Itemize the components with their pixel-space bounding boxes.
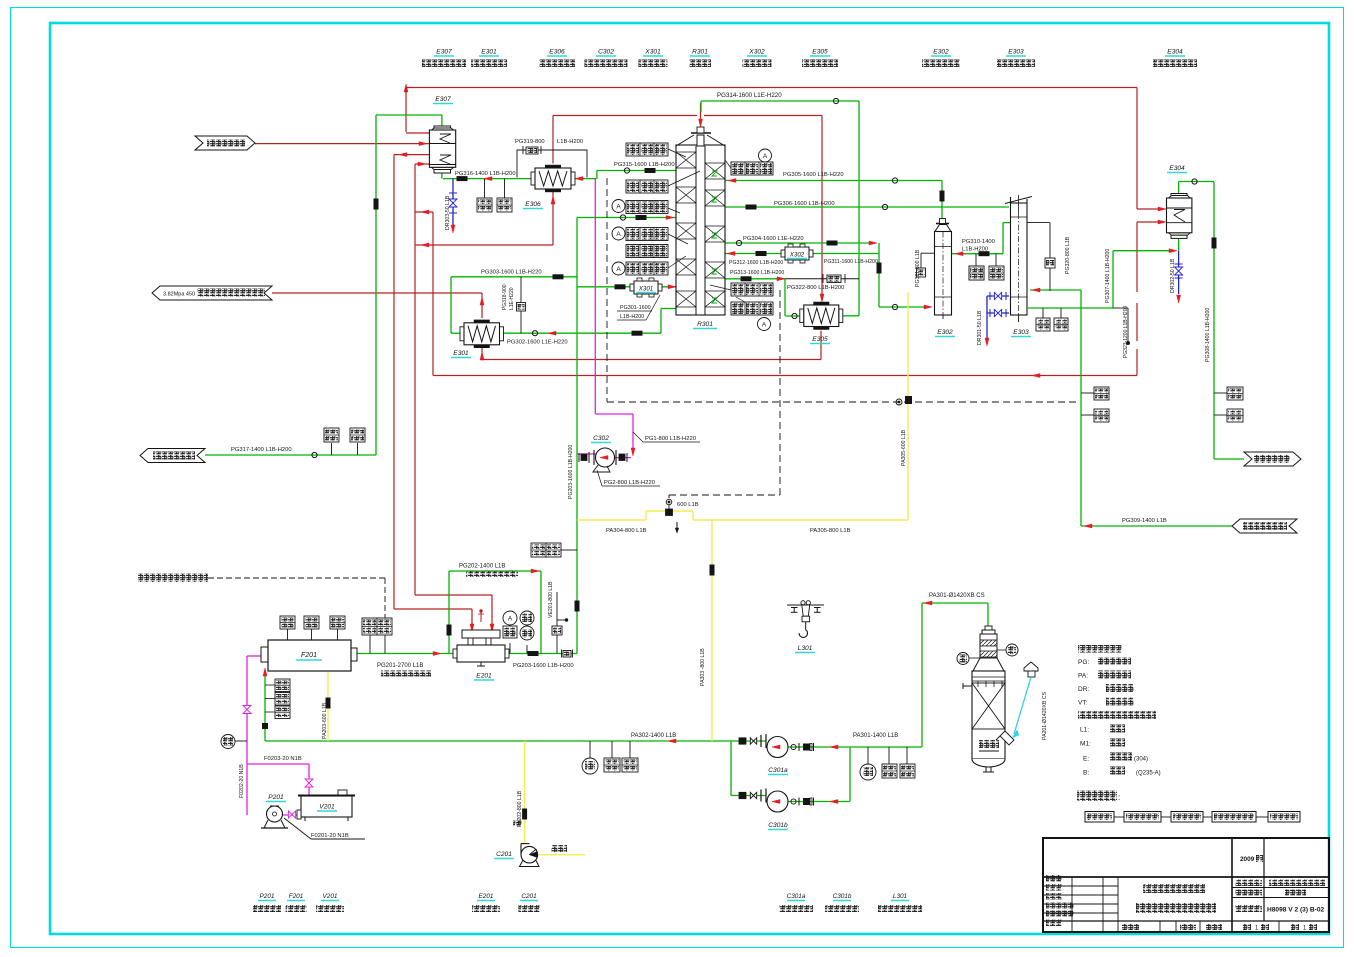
svg-text:PG322-800 L1B-H200: PG322-800 L1B-H200 (787, 285, 844, 291)
svg-text:L1E-H220: L1E-H220 (509, 287, 515, 310)
svg-text:(304): (304) (1134, 757, 1148, 763)
svg-text:E304: E304 (1167, 49, 1183, 56)
svg-text:E201: E201 (476, 673, 492, 680)
svg-text:C302: C302 (598, 49, 614, 56)
svg-text:PG321-800 L1B: PG321-800 L1B (915, 249, 921, 287)
svg-text:B:: B: (1083, 770, 1089, 777)
svg-text:E305: E305 (812, 49, 828, 56)
svg-text:X301: X301 (638, 286, 653, 293)
svg-text:PG314-1600 L1E-H220: PG314-1600 L1E-H220 (717, 92, 782, 99)
svg-text:A: A (616, 266, 621, 273)
svg-text:PG318-900: PG318-900 (502, 284, 508, 310)
svg-text:PG306-1600 L1B-H200: PG306-1600 L1B-H200 (774, 201, 835, 207)
svg-text:A: A (616, 204, 621, 211)
svg-text:PA:: PA: (1078, 673, 1088, 680)
svg-text:PG305-1600 L1B-H220: PG305-1600 L1B-H220 (783, 172, 844, 178)
svg-text:H8098 V 2 (3) B-02: H8098 V 2 (3) B-02 (1267, 907, 1325, 914)
svg-text:F201: F201 (289, 893, 304, 900)
svg-text:VE201-800 L1B: VE201-800 L1B (548, 581, 554, 618)
svg-text:C301a: C301a (768, 767, 788, 774)
svg-text:PG2-800 L1B-H220: PG2-800 L1B-H220 (604, 480, 655, 486)
svg-text:C301b: C301b (768, 822, 788, 829)
svg-text:E301: E301 (453, 350, 469, 357)
svg-text:E201: E201 (479, 893, 494, 900)
svg-text:X302: X302 (748, 49, 765, 56)
svg-text:R301: R301 (697, 321, 713, 328)
svg-text:E306: E306 (549, 49, 565, 56)
svg-text:M1:: M1: (1080, 741, 1091, 748)
svg-text:PG313-1600 L1B-H200: PG313-1600 L1B-H200 (730, 270, 784, 276)
svg-text:PA304-800 L1B: PA304-800 L1B (606, 528, 647, 534)
svg-text:V201: V201 (319, 804, 335, 811)
svg-text:PG312-1600 L1B-H200: PG312-1600 L1B-H200 (729, 260, 783, 266)
svg-text:L301: L301 (893, 893, 908, 900)
svg-text:PG203-1600 L1B-H200: PG203-1600 L1B-H200 (568, 445, 574, 499)
svg-text:PG202-1400 L1B: PG202-1400 L1B (459, 564, 505, 570)
svg-text:PG310-1400: PG310-1400 (962, 239, 995, 245)
svg-text:P201: P201 (260, 893, 275, 900)
svg-text:(Q235-A): (Q235-A) (1136, 771, 1161, 777)
svg-text:V201: V201 (323, 893, 338, 900)
svg-text:L301: L301 (798, 645, 813, 652)
svg-text:PA202-800 L1B: PA202-800 L1B (517, 790, 523, 827)
svg-text:PG316-1400 L1B-H200: PG316-1400 L1B-H200 (455, 171, 516, 177)
svg-text:PA203-600 L1B: PA203-600 L1B (322, 702, 328, 739)
svg-text:PA301-Ø1420XB CS: PA301-Ø1420XB CS (929, 593, 985, 599)
svg-text:DR303-50 L1B: DR303-50 L1B (445, 195, 451, 230)
svg-text:A: A (763, 153, 768, 160)
svg-text:E304: E304 (1169, 165, 1185, 172)
svg-text:PG315-1600 L1B-H200: PG315-1600 L1B-H200 (614, 162, 675, 168)
svg-text:PG309-1400 L1B: PG309-1400 L1B (1122, 518, 1167, 524)
svg-text:X302: X302 (789, 252, 805, 259)
svg-text:A: A (762, 322, 767, 329)
svg-text:C302: C302 (593, 435, 609, 442)
svg-text::: : (1118, 793, 1120, 802)
svg-text:PA201-Ø1420XB CS: PA201-Ø1420XB CS (1042, 691, 1048, 740)
svg-text:P201: P201 (268, 794, 284, 801)
svg-text:F0201-20 N1B: F0201-20 N1B (311, 833, 349, 839)
svg-text:PG323-1200 L1B-H200: PG323-1200 L1B-H200 (1123, 306, 1129, 358)
svg-text:L1B-H200: L1B-H200 (962, 247, 988, 253)
svg-text:C301b: C301b (833, 893, 852, 900)
svg-text:C301a: C301a (787, 893, 806, 900)
svg-text:PA305-800 L1B: PA305-800 L1B (810, 528, 851, 534)
svg-text:E303: E303 (1008, 49, 1024, 56)
svg-text:PG307-1400 L1B-H200: PG307-1400 L1B-H200 (1105, 249, 1111, 303)
svg-text:PG304-1600 L1E-H220: PG304-1600 L1E-H220 (743, 236, 804, 242)
svg-text:PG203-1600 L1B-H200: PG203-1600 L1B-H200 (513, 663, 574, 669)
svg-text:PG311-1600 L1B-H200: PG311-1600 L1B-H200 (824, 259, 878, 265)
svg-text:E307: E307 (435, 96, 451, 103)
svg-text:R301: R301 (692, 49, 708, 56)
svg-text:600 L1B: 600 L1B (677, 502, 699, 508)
svg-text:PG1-800 L1B-H220: PG1-800 L1B-H220 (645, 436, 696, 442)
svg-text:A: A (616, 231, 621, 238)
svg-text:PG201-2700 L1B: PG201-2700 L1B (377, 663, 423, 669)
svg-text:PA302-1400 L1B: PA302-1400 L1B (631, 733, 676, 739)
svg-text:C201: C201 (496, 851, 512, 858)
svg-text:PG317-1400 L1B-H200: PG317-1400 L1B-H200 (231, 447, 292, 453)
svg-text:C201: C201 (521, 893, 537, 900)
svg-text:2009: 2009 (1240, 856, 1255, 863)
svg-text:PA303 -800 L1B: PA303 -800 L1B (700, 648, 706, 686)
svg-text:PG302-1600 L1E-H220: PG302-1600 L1E-H220 (507, 340, 568, 346)
svg-text:E302: E302 (937, 329, 953, 336)
svg-text:VT:: VT: (1078, 700, 1088, 707)
svg-text:E301: E301 (481, 49, 497, 56)
svg-text:F0202-20 N1B: F0202-20 N1B (239, 764, 245, 798)
svg-text:PG308-1400 L1B-H200: PG308-1400 L1B-H200 (1205, 308, 1211, 362)
svg-text:E307: E307 (436, 49, 452, 56)
svg-text:PG:: PG: (1078, 659, 1089, 666)
svg-text:PG301-1600: PG301-1600 (620, 305, 651, 311)
svg-text:DR301-50 L1B: DR301-50 L1B (977, 310, 983, 345)
svg-text:E:: E: (1083, 756, 1089, 763)
svg-text:L1B-H200: L1B-H200 (620, 314, 644, 320)
svg-text:X301: X301 (644, 49, 661, 56)
svg-text:PG319-800: PG319-800 (515, 139, 545, 145)
svg-text:E306: E306 (525, 201, 541, 208)
svg-text:E303: E303 (1013, 329, 1029, 336)
svg-text:DR302-50 L1B: DR302-50 L1B (1170, 258, 1176, 293)
svg-text:E305: E305 (812, 336, 828, 343)
svg-text:F0203-20 N1B: F0203-20 N1B (264, 756, 302, 762)
svg-text:L1B-H200: L1B-H200 (557, 139, 583, 145)
svg-text:E302: E302 (933, 49, 949, 56)
svg-text:PA305-600 L1B: PA305-600 L1B (901, 429, 907, 466)
svg-text:F201: F201 (301, 652, 317, 659)
svg-text:PG320-800 L1B: PG320-800 L1B (1065, 236, 1071, 274)
svg-text:PG303-1600 L1B-H220: PG303-1600 L1B-H220 (481, 270, 542, 276)
svg-text:DR:: DR: (1078, 686, 1089, 693)
svg-text:PA301-1400 L1B: PA301-1400 L1B (853, 733, 898, 739)
svg-text:3.82Mpa 450: 3.82Mpa 450 (163, 292, 195, 298)
svg-text:A: A (508, 616, 513, 623)
svg-text:L1:: L1: (1080, 727, 1089, 734)
